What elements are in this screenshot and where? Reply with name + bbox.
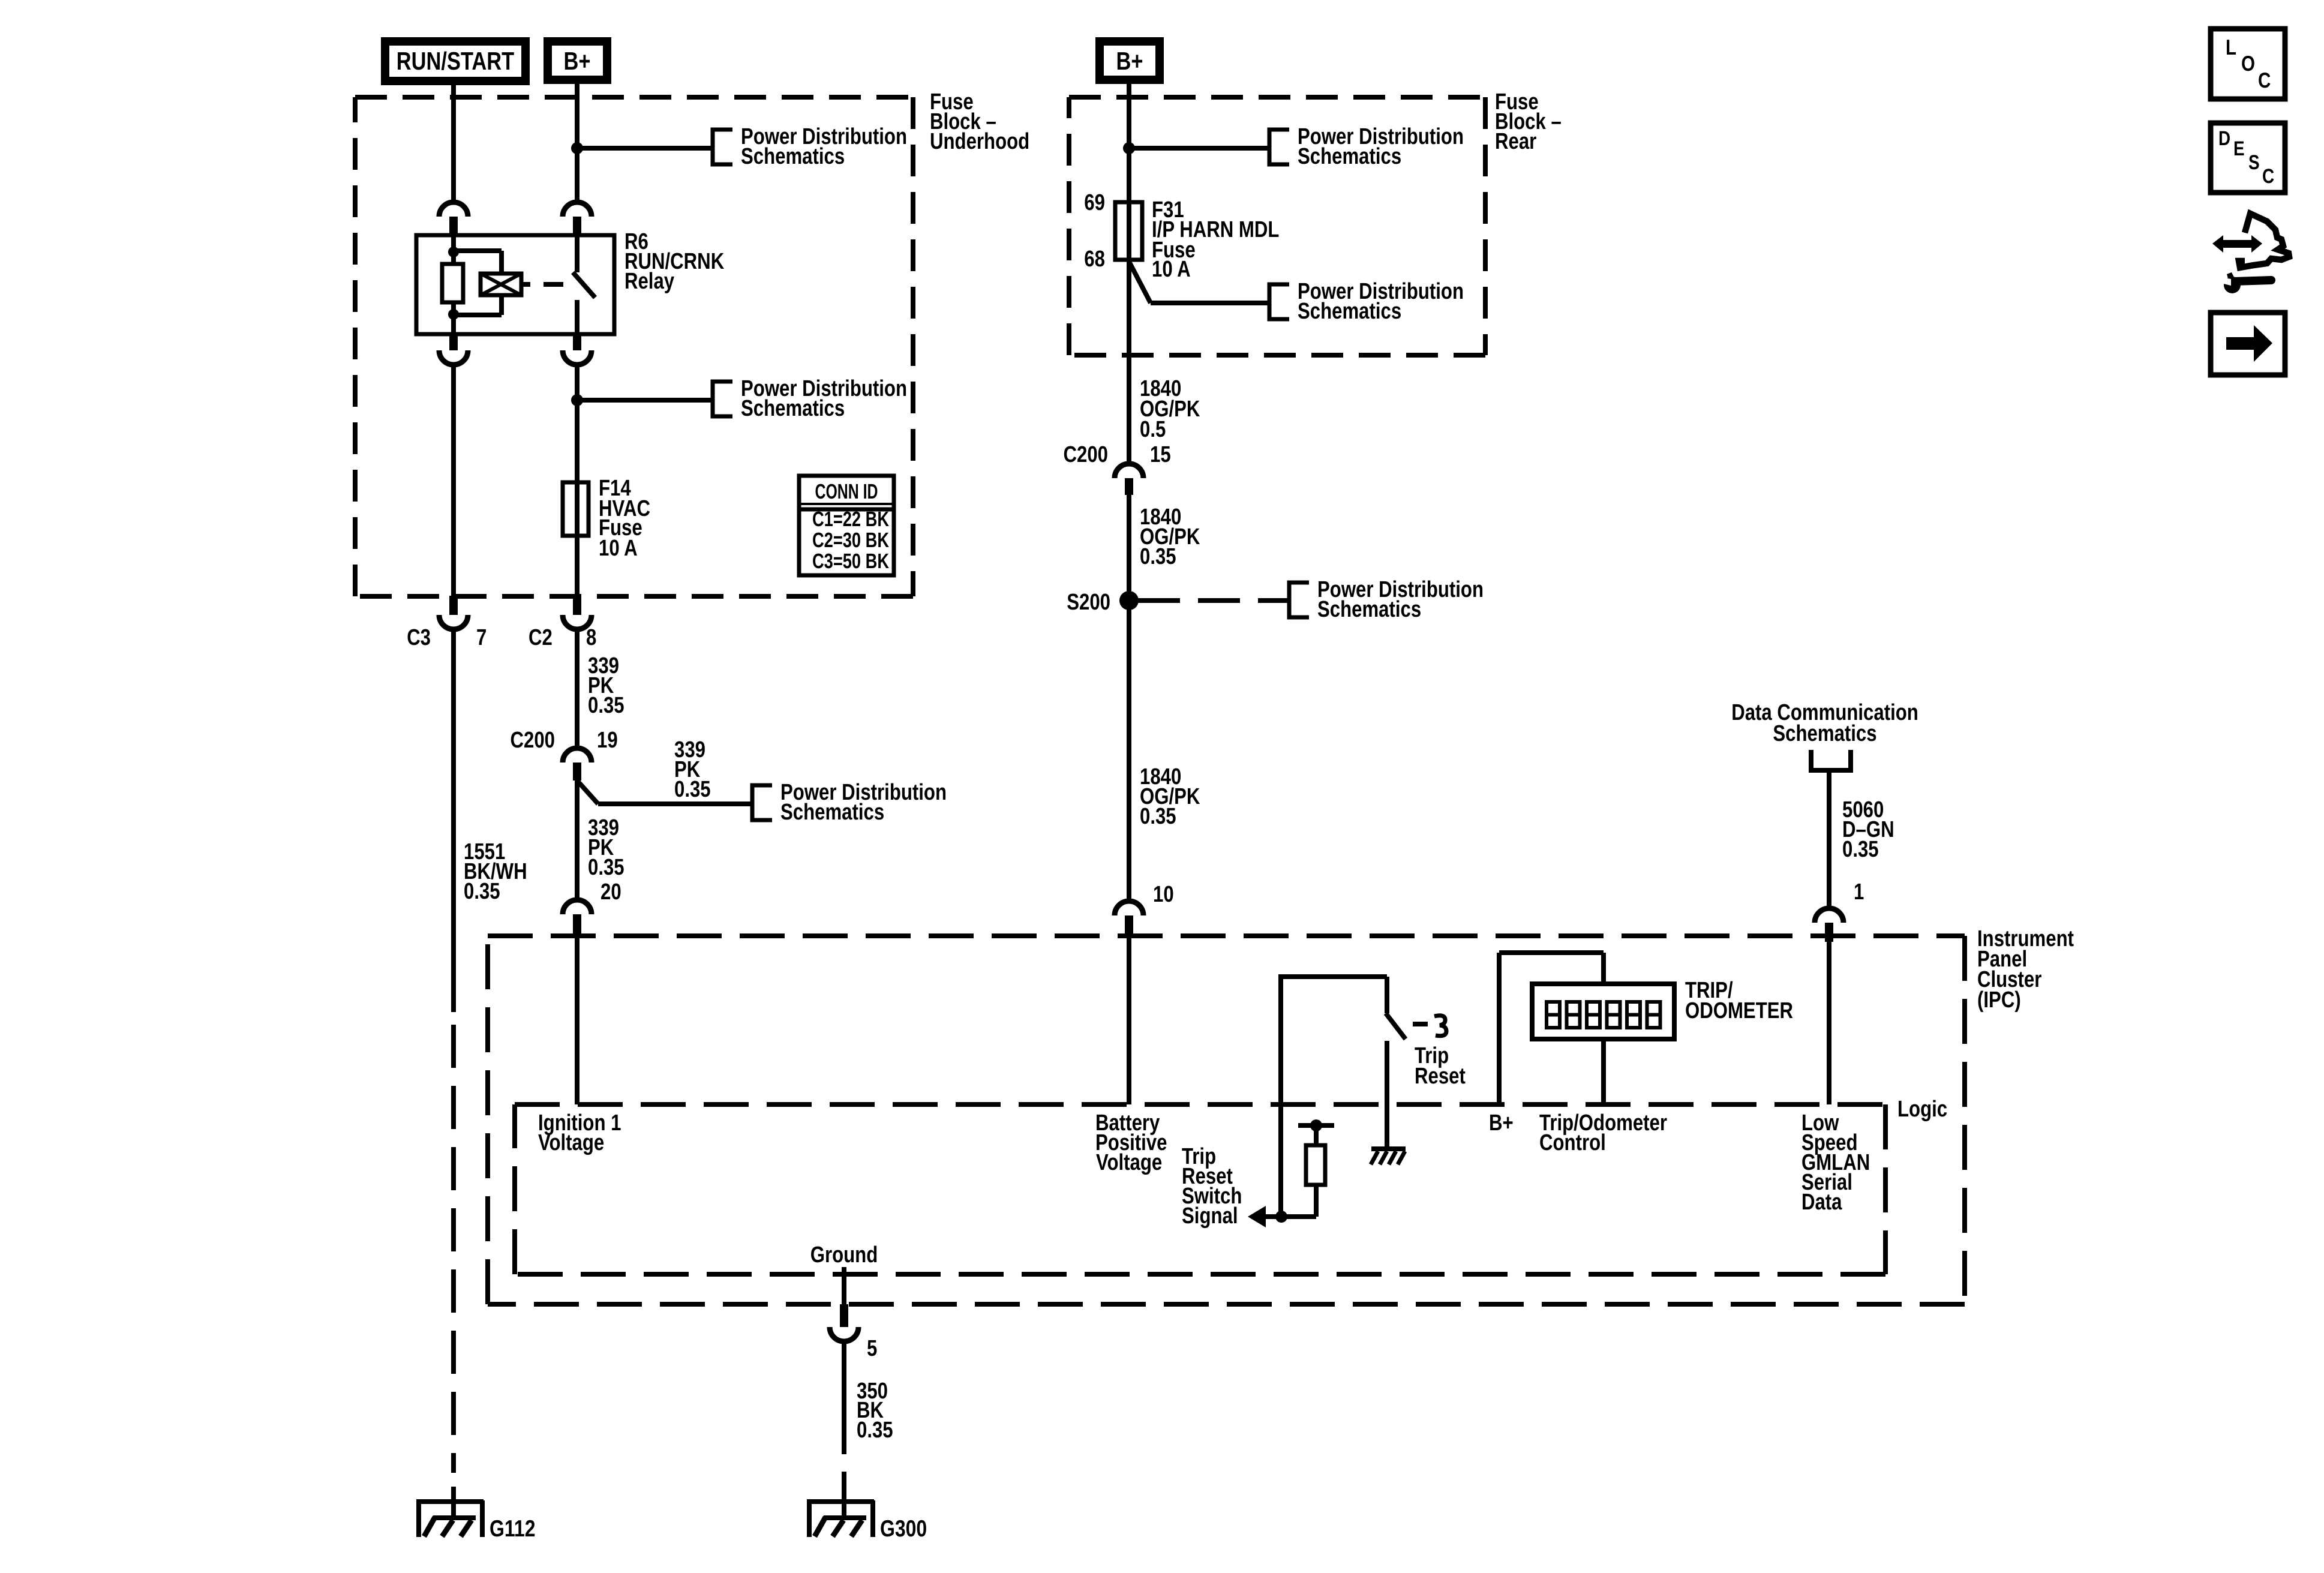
- svg-text:(IPC): (IPC): [1977, 987, 2021, 1013]
- svg-text:10: 10: [1153, 882, 1174, 907]
- svg-text:C200: C200: [1064, 442, 1109, 467]
- svg-text:Relay: Relay: [624, 269, 674, 294]
- svg-text:10 A: 10 A: [599, 536, 638, 561]
- svg-text:Schematics: Schematics: [1298, 299, 1401, 324]
- coil solenoid R6: [481, 274, 521, 295]
- switch relay blade: [573, 272, 595, 298]
- wire 339 PK a: [575, 629, 580, 748]
- svg-text:Ground: Ground: [810, 1242, 878, 1268]
- svg-text:68: 68: [1084, 247, 1105, 272]
- instrument panel cluster box: [488, 933, 1965, 938]
- switch trip contact symbol: [1434, 1016, 1446, 1036]
- svg-text:1: 1: [1854, 879, 1864, 905]
- switch relay contact bottom: [575, 300, 580, 334]
- connector C2 pin 8: [573, 596, 581, 615]
- svg-text:S: S: [2248, 151, 2260, 174]
- connector pin 20: [563, 900, 591, 914]
- svg-text:L: L: [2226, 35, 2236, 59]
- svg-text:RUN/START: RUN/START: [397, 47, 515, 75]
- svg-text:0.35: 0.35: [1140, 804, 1176, 829]
- svg-text:5: 5: [867, 1336, 877, 1361]
- svg-text:Schematics: Schematics: [780, 800, 884, 825]
- svg-text:C200: C200: [511, 728, 556, 753]
- ref tab power distribution 3: [752, 785, 772, 820]
- svg-text:O: O: [2241, 51, 2255, 76]
- relay coil wire left: [451, 235, 456, 334]
- svg-text:Data: Data: [1801, 1190, 1842, 1215]
- svg-text:Schematics: Schematics: [741, 396, 845, 421]
- wire RUN/START down: [451, 81, 456, 202]
- ground G112: [418, 1499, 484, 1504]
- ref tab power distribution 4: [1269, 130, 1289, 164]
- fuse F31: [1115, 202, 1142, 260]
- wire to tab1: [577, 146, 713, 151]
- svg-text:Control: Control: [1539, 1130, 1606, 1155]
- ref tab power distribution 1: [713, 130, 732, 164]
- svg-text:0.5: 0.5: [1140, 417, 1166, 442]
- icon double arrow: [2212, 235, 2262, 253]
- connector pin relay top right: [563, 202, 591, 217]
- wire G112 stub: [451, 1487, 456, 1518]
- relay R6 box: [416, 235, 614, 334]
- wire to F14 junction: [575, 365, 580, 596]
- wire 1840 b: [1127, 495, 1131, 901]
- resistor trip pull-up: [1306, 1145, 1325, 1185]
- svg-text:C3=50 BK: C3=50 BK: [812, 550, 889, 573]
- svg-text:0.35: 0.35: [1842, 837, 1879, 862]
- svg-text:0.35: 0.35: [588, 693, 624, 718]
- ref tab power distribution 6: [1289, 583, 1309, 617]
- power rail B+ (rear): [1100, 41, 1160, 80]
- wire trip loop top: [1281, 974, 1387, 979]
- svg-text:0.35: 0.35: [857, 1418, 893, 1443]
- wire to tab3: [1129, 146, 1269, 151]
- node B+ rear junction: [1123, 142, 1135, 154]
- svg-text:19: 19: [597, 728, 618, 753]
- svg-text:Voltage: Voltage: [538, 1130, 604, 1155]
- connector pin 10: [1115, 901, 1143, 915]
- switch trip blade: [1386, 1013, 1406, 1039]
- svg-text:20: 20: [600, 879, 621, 905]
- wire ground: [842, 1267, 846, 1304]
- display digits: [1547, 1002, 1560, 1028]
- wire 5060 D-GN: [1827, 770, 1831, 908]
- svg-text:Voltage: Voltage: [1096, 1150, 1162, 1175]
- node trip signal junction: [1275, 1211, 1287, 1223]
- ground G300: [808, 1499, 874, 1504]
- svg-text:Schematics: Schematics: [1773, 721, 1876, 746]
- wire B+ feed: [1497, 953, 1502, 1104]
- wire B+ rear down: [1127, 80, 1131, 464]
- connector pin relay top left: [439, 202, 468, 217]
- fuse F14: [563, 482, 588, 536]
- svg-text:10 A: 10 A: [1152, 257, 1191, 282]
- connector pin 1: [1815, 908, 1843, 923]
- wire low speed gmlan: [1827, 942, 1831, 1104]
- connector C200 pin 19: [563, 748, 591, 763]
- connector pin relay bottom right: [573, 334, 581, 350]
- connector pin 5: [840, 1304, 848, 1327]
- svg-text:C: C: [2258, 68, 2271, 92]
- svg-text:7: 7: [476, 625, 487, 650]
- svg-text:Underhood: Underhood: [930, 129, 1029, 154]
- wire trip/odometer control: [1601, 1039, 1606, 1104]
- node splice S200: [1119, 591, 1139, 610]
- svg-text:E: E: [2233, 137, 2245, 160]
- chassis ground trip switch: [1371, 1146, 1406, 1151]
- svg-text:C1=22 BK: C1=22 BK: [812, 508, 889, 531]
- ref tab power distribution 5: [1269, 284, 1289, 319]
- wire B+ down: [575, 80, 580, 202]
- node F14 junction: [571, 394, 583, 406]
- svg-text:Logic: Logic: [1897, 1097, 1947, 1122]
- svg-text:Signal: Signal: [1182, 1203, 1238, 1229]
- svg-text:Reset: Reset: [1415, 1064, 1466, 1089]
- svg-text:0.35: 0.35: [1140, 544, 1176, 569]
- svg-text:0.35: 0.35: [674, 777, 711, 802]
- wire 1551 dashed: [451, 629, 456, 1012]
- node B+ junction: [571, 142, 583, 154]
- svg-text:C2=30 BK: C2=30 BK: [812, 529, 889, 552]
- wire branch diagonal: [577, 781, 598, 804]
- fuse block rear box: [1069, 95, 1485, 100]
- wire 339 PK b: [575, 781, 580, 900]
- svg-text:S200: S200: [1067, 590, 1110, 615]
- connector C200 pin 15: [1115, 464, 1143, 478]
- switch trip lower stub: [1385, 1041, 1389, 1147]
- svg-text:0.35: 0.35: [588, 855, 624, 880]
- node relay coil bottom: [448, 309, 459, 320]
- node relay coil top: [448, 247, 459, 257]
- wire ignition 1 voltage: [575, 933, 580, 1104]
- svg-text:ODOMETER: ODOMETER: [1685, 998, 1793, 1023]
- wire coil tick: [521, 282, 530, 287]
- wire relay linkage dash: [544, 282, 563, 287]
- node resistor top tee: [1298, 1123, 1334, 1128]
- wire S200 dashed leader: [1138, 598, 1289, 603]
- svg-text:G300: G300: [880, 1516, 927, 1542]
- svg-text:CONN ID: CONN ID: [815, 480, 878, 503]
- svg-text:8: 8: [586, 625, 596, 650]
- connector pin relay bottom left: [449, 334, 458, 350]
- svg-text:Schematics: Schematics: [1298, 144, 1401, 169]
- svg-text:C3: C3: [407, 625, 431, 650]
- svg-text:D: D: [2218, 127, 2230, 150]
- wire F31 branch: [1129, 262, 1151, 303]
- svg-text:Rear: Rear: [1495, 129, 1536, 154]
- svg-text:G112: G112: [490, 1516, 536, 1542]
- resistor relay R6 internal: [442, 264, 463, 302]
- wire coil loop bottom: [499, 295, 504, 315]
- svg-text:B+: B+: [1116, 47, 1143, 75]
- svg-text:C: C: [2262, 165, 2274, 188]
- svg-text:B+: B+: [1489, 1110, 1514, 1136]
- switch trip linkage dash: [1413, 1022, 1428, 1026]
- wire trip loop left: [1278, 974, 1283, 1217]
- switch relay contact top: [575, 235, 580, 272]
- svg-text:15: 15: [1150, 442, 1171, 467]
- arrow trip signal: [1248, 1206, 1266, 1227]
- svg-text:B+: B+: [564, 47, 591, 75]
- wire to tab2: [577, 398, 713, 403]
- fuse block underhood box: [355, 95, 913, 100]
- icon wrench: [2224, 277, 2241, 293]
- wire 1551 upper: [451, 365, 456, 596]
- icon arrow box: [2211, 313, 2285, 375]
- wire resistor bottom: [1314, 1185, 1319, 1217]
- icon outline pictogram: [2239, 214, 2289, 268]
- wire 350 BK: [842, 1341, 846, 1454]
- ref tab power distribution 2: [713, 382, 732, 416]
- wire coil loop top: [454, 248, 502, 253]
- power rail B+ (underhood): [548, 41, 607, 80]
- power rail RUN/START: [385, 41, 526, 81]
- display trip/odometer box: [1532, 984, 1674, 1039]
- svg-text:Schematics: Schematics: [741, 144, 845, 169]
- connector C3 pin 7: [449, 596, 458, 615]
- table CONN ID: [799, 476, 894, 575]
- switch trip contact top: [1385, 977, 1389, 1013]
- wire battery positive voltage: [1127, 935, 1131, 1104]
- icon LOC box: [2211, 29, 2285, 99]
- wire resistor top: [1314, 1125, 1319, 1145]
- svg-text:C2: C2: [529, 625, 553, 650]
- svg-text:69: 69: [1084, 190, 1105, 215]
- logic box: [515, 1102, 1885, 1107]
- svg-text:Schematics: Schematics: [1317, 597, 1421, 622]
- icon DESC box: [2211, 123, 2285, 193]
- svg-text:0.35: 0.35: [464, 879, 500, 904]
